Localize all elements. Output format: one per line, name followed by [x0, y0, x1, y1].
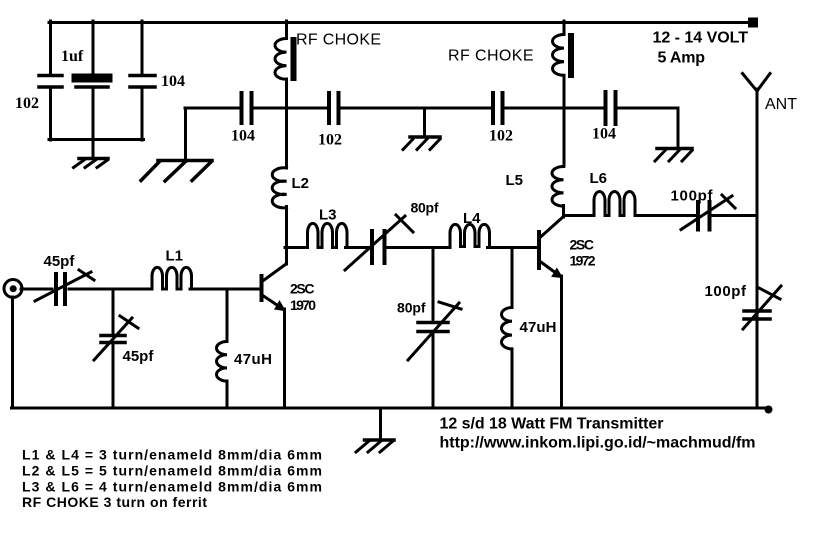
- svg-text:12 s/d 18 Watt FM Transmitter: 12 s/d 18 Watt FM Transmitter: [440, 416, 664, 433]
- svg-text:ANT: ANT: [765, 96, 797, 113]
- ground under 1uf block: [74, 159, 109, 168]
- svg-text:45pf: 45pf: [123, 348, 155, 365]
- svg-text:RF CHOKE: RF CHOKE: [296, 32, 381, 49]
- svg-text:45pf: 45pf: [44, 253, 76, 270]
- svg-text:L2 & L5 = 5 turn/enameld 8mm/d: L2 & L5 = 5 turn/enameld 8mm/dia 6mm: [22, 463, 322, 479]
- RF choke 2 core bar: [568, 33, 574, 78]
- wire Q2 emitter down: [560, 276, 563, 408]
- ground 5: [356, 440, 394, 452]
- svg-text:L3 & L6 = 4 turn/enameld 8mm/d: L3 & L6 = 4 turn/enameld 8mm/dia 6mm: [22, 479, 322, 495]
- svg-text:104: 104: [592, 126, 616, 143]
- svg-text:47uH: 47uH: [520, 319, 557, 336]
- svg-text:5 Amp: 5 Amp: [658, 50, 706, 67]
- svg-text:L4: L4: [463, 210, 481, 227]
- svg-text:102: 102: [489, 128, 513, 145]
- svg-text:104: 104: [231, 128, 255, 145]
- capacitor 45pf shunt variable: [94, 316, 138, 360]
- svg-text:L5: L5: [506, 172, 524, 189]
- capacitor 80pf series variable: [345, 215, 413, 270]
- inductor L3: [308, 223, 348, 247]
- inductor 47uH 2: [501, 308, 512, 349]
- wire 1uf leg: [92, 21, 95, 157]
- capacitor 100pf series variable: [681, 195, 735, 230]
- svg-text:RF CHOKE: RF CHOKE: [448, 48, 534, 65]
- capacitor 104 (bypass 1): [242, 93, 252, 123]
- svg-text:47uH: 47uH: [234, 351, 272, 368]
- ground 3: [403, 137, 440, 150]
- capacitor 45pf series variable: [35, 270, 94, 304]
- input connector J1: [4, 280, 22, 298]
- junction dot right end: [765, 406, 773, 414]
- inductor L1: [152, 267, 192, 289]
- capacitor 104 (left block): [130, 76, 155, 88]
- capacitor 1uf electrolytic: [76, 74, 108, 83]
- wire RF choke 1 vertical: [285, 21, 288, 249]
- svg-text:L2: L2: [292, 175, 310, 192]
- wire RF choke 2 vertical: [562, 21, 566, 217]
- svg-text:102: 102: [318, 132, 342, 149]
- wire 104 cap leg: [141, 21, 144, 140]
- wire Q1 emitter down: [283, 309, 286, 408]
- svg-text:http://www.inkom.lipi.go.id/~m: http://www.inkom.lipi.go.id/~machmud/fm: [440, 435, 756, 452]
- svg-text:80pf: 80pf: [397, 300, 426, 316]
- wire output line y215.5: [564, 214, 758, 217]
- inductor L4: [450, 224, 490, 246]
- wire stage2 line y247.5: [285, 246, 537, 249]
- svg-text:RF CHOKE 3 turn on ferrit: RF CHOKE 3 turn on ferrit: [22, 494, 207, 510]
- wire top power rail: [49, 21, 754, 24]
- wire bypass line y108: [185, 108, 678, 148]
- svg-text:L1: L1: [166, 248, 184, 265]
- wire bottom of cap block: [49, 138, 144, 141]
- wire shunt 47uH leg: [226, 289, 229, 408]
- wire shunt 45pf leg: [112, 289, 115, 408]
- svg-text:12 - 14 VOLT: 12 - 14 VOLT: [653, 30, 749, 47]
- capacitor 102 (bypass 2): [493, 93, 503, 123]
- transistor Q1 2SC1970: [262, 264, 287, 310]
- ground 2 (large): [141, 161, 212, 182]
- svg-text:80pf: 80pf: [411, 200, 439, 216]
- wire shunt 80pf leg: [432, 248, 435, 409]
- capacitor 80pf shunt variable: [408, 302, 461, 360]
- RF choke 1 core bar: [291, 37, 297, 81]
- svg-text:100pf: 100pf: [671, 188, 714, 205]
- svg-text:104: 104: [161, 73, 185, 90]
- svg-text:1uf: 1uf: [61, 48, 84, 65]
- wire input line y289: [21, 288, 259, 291]
- svg-text:102: 102: [15, 95, 39, 112]
- svg-text:2SC: 2SC: [570, 237, 595, 253]
- capacitor 102 (bypass 1): [329, 93, 339, 123]
- RF choke 1 coil: [275, 39, 287, 80]
- svg-text:1970: 1970: [290, 297, 316, 313]
- svg-text:2SC: 2SC: [290, 281, 315, 297]
- capacitor 104 (bypass 2): [606, 92, 616, 124]
- svg-text:100pf: 100pf: [705, 283, 748, 300]
- terminal square at rail right end: [748, 18, 758, 28]
- svg-text:L3: L3: [319, 207, 337, 224]
- inductor L5: [552, 167, 564, 207]
- wire shunt 47uH 2 leg: [511, 248, 514, 409]
- capacitor 100pf shunt variable: [743, 286, 781, 329]
- svg-text:L6: L6: [590, 170, 608, 187]
- inductor L2: [272, 168, 286, 208]
- inductor L6: [594, 192, 635, 216]
- transistor Q2 2SC1972: [539, 217, 564, 278]
- wire bottom ground rail: [12, 407, 767, 410]
- svg-text:L1 & L4 = 3 turn/enameld 8mm/d: L1 & L4 = 3 turn/enameld 8mm/dia 6mm: [22, 447, 322, 463]
- wire ground 5 stub: [379, 408, 382, 439]
- ground 4: [655, 149, 692, 162]
- antenna: [743, 74, 771, 409]
- svg-text:1972: 1972: [570, 253, 596, 269]
- wire input down to ground rail: [11, 297, 14, 408]
- capacitor 102 (left block): [39, 76, 62, 88]
- RF choke 2 coil: [552, 35, 564, 76]
- wire to ground 2: [184, 108, 187, 159]
- wire 102 cap left leg: [49, 21, 52, 140]
- wire Q1 collector up: [285, 249, 288, 264]
- inductor 47uH: [216, 342, 227, 382]
